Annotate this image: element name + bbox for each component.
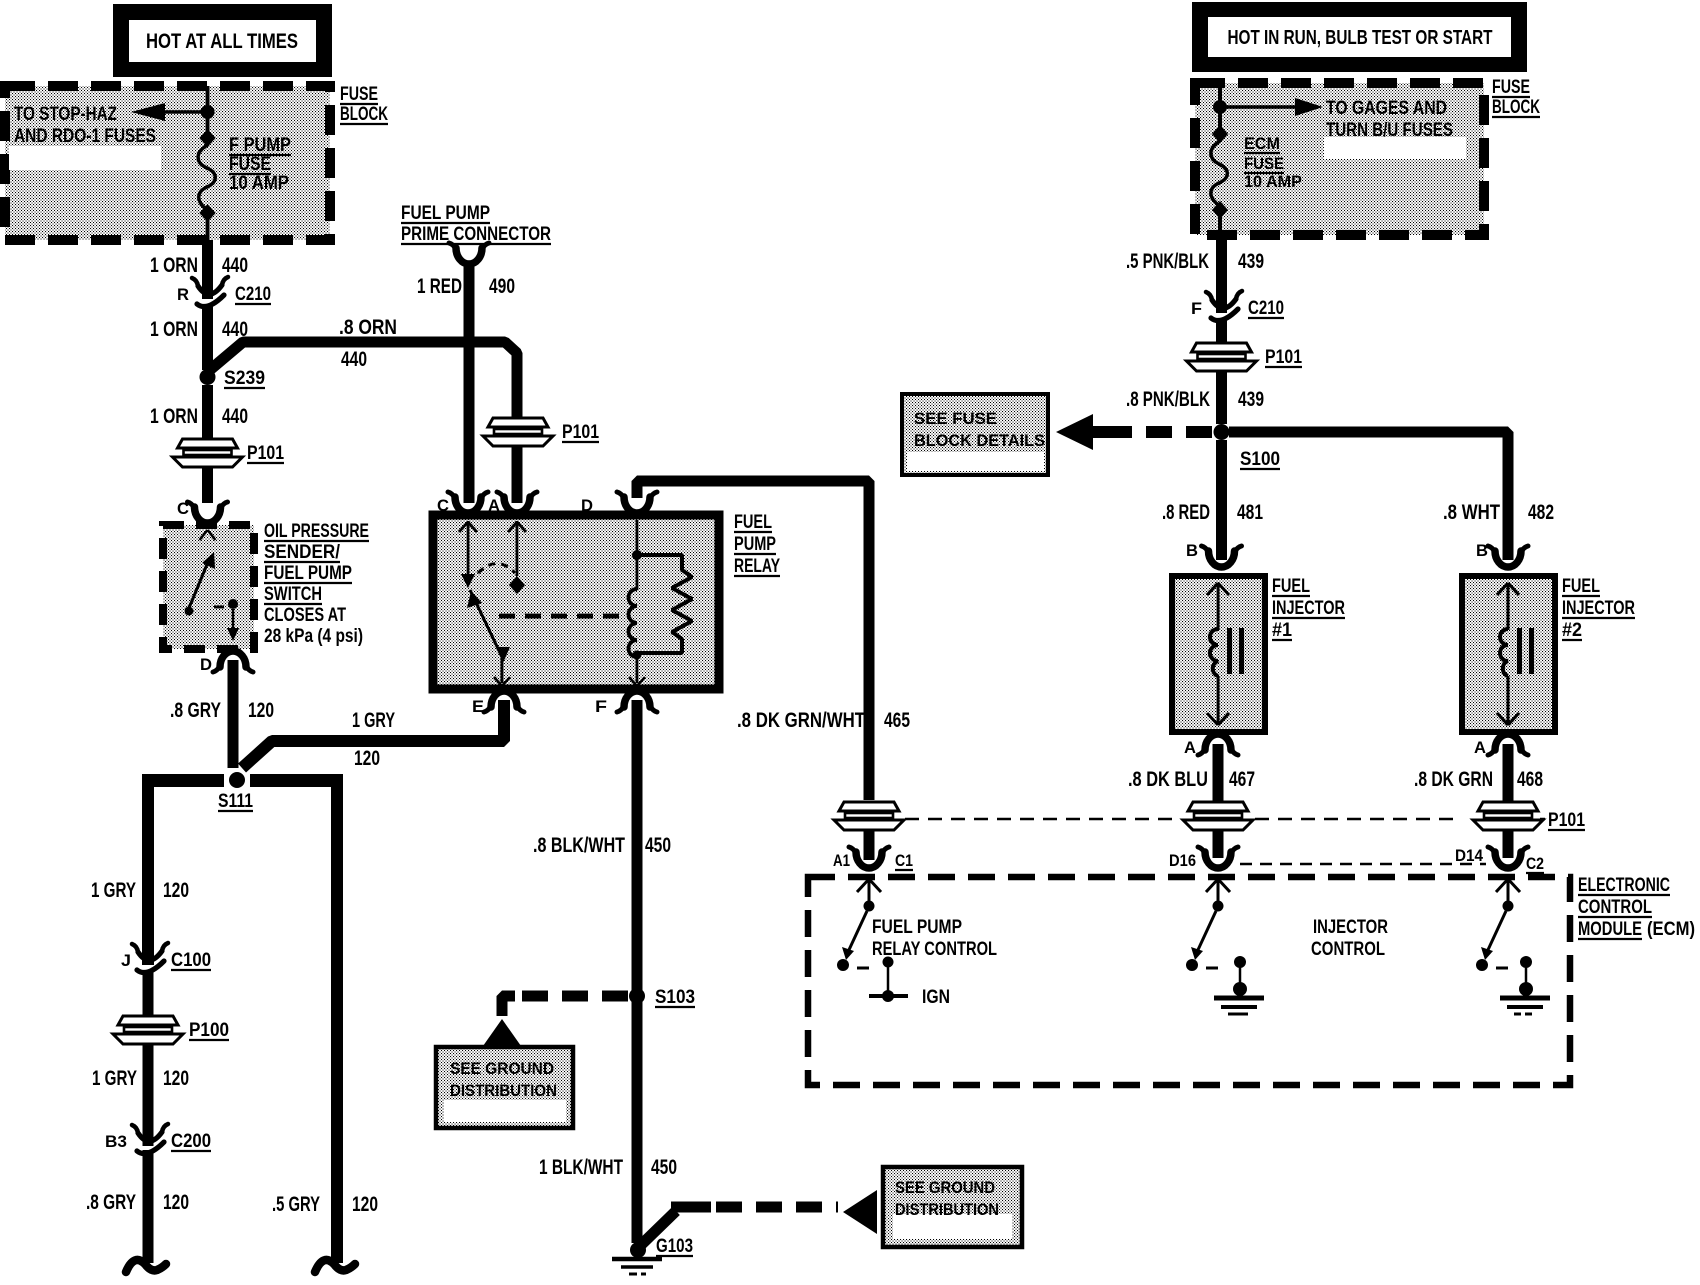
wire: relay pin D elbow to ECM (.8 DK GRN/WHT 465) [637,481,910,800]
label: FUSE BLOCK (left) [340,84,388,125]
svg-text:SEE FUSE: SEE FUSE [914,409,997,428]
wire: left leg of S111 down (1 GRY 120) [91,774,189,965]
connector C210 pin F (right) [1191,291,1284,321]
svg-text:C1: C1 [895,851,913,870]
svg-text:.8 BLK/WHT: .8 BLK/WHT [533,834,625,857]
svg-text:.8 DK GRN/WHT: .8 DK GRN/WHT [737,709,865,732]
pin D of oil pressure switch [200,651,253,674]
relay pins C and A forks [437,492,537,515]
svg-text:F: F [1191,299,1202,318]
pin C of oil pressure switch [177,499,228,523]
svg-text:FUEL PUMP: FUEL PUMP [872,917,962,938]
wire: 1 ORN 440 (C210 to S239) [150,304,248,370]
label: ELECTRONIC CONTROL MODULE (ECM) [1578,875,1695,940]
svg-text:ELECTRONIC: ELECTRONIC [1578,875,1670,896]
svg-text:FUSE: FUSE [340,84,378,105]
svg-text:440: 440 [222,254,248,277]
svg-text:C2: C2 [1526,854,1544,873]
node: left fuse block tap [201,105,215,119]
svg-text:CLOSES AT: CLOSES AT [264,605,346,626]
wire: arrow to GAGES and TURN B/U fuses [1224,98,1453,141]
svg-text:FUEL: FUEL [734,512,772,533]
svg-text:450: 450 [651,1156,677,1179]
pass-through connector P101 (left, on ORN wire) [173,439,285,503]
svg-text:TO GAGES AND: TO GAGES AND [1326,98,1447,119]
svg-text:D14: D14 [1455,846,1483,865]
svg-text:S239: S239 [224,368,265,389]
ECM pin A1/C1 fork [833,831,913,870]
pass-through connector P101 (middle, on ORN wire) [483,415,599,503]
ECM pin D16 fork [1169,847,1238,870]
relay pin D fork [581,492,657,515]
svg-text:C200: C200 [171,1131,211,1152]
svg-text:SEE GROUND: SEE GROUND [450,1059,554,1078]
svg-text:.8 DK GRN: .8 DK GRN [1414,768,1493,791]
splice S239 [200,368,266,389]
svg-text:1 RED: 1 RED [417,275,462,298]
svg-text:PRIME CONNECTOR: PRIME CONNECTOR [401,224,551,245]
fuel pump relay box [433,515,719,689]
reference box: SEE GROUND DISTRIBUTION (bottom right) [883,1167,1022,1247]
svg-text:FUSE: FUSE [229,154,271,175]
connector C100 pin J [121,943,211,973]
relay internals: coil and resistor from pin D to pin F [629,520,693,686]
svg-text:INJECTOR: INJECTOR [1313,917,1388,938]
svg-text:OIL PRESSURE: OIL PRESSURE [264,521,369,542]
dashed wire: S103 to ground distribution reference [483,996,628,1046]
svg-text:.8 GRY: .8 GRY [170,699,221,722]
oil pressure sender / fuel pump switch - dashed box [163,525,254,649]
wire: .8 WHT 482 branch (S100 to injector 2) [1229,432,1554,560]
pass-through connector P101 (on 467 wire) [1183,802,1253,830]
fuel injector #1 [1172,541,1345,757]
svg-text:440: 440 [341,348,367,371]
connector C200 pin B3 [105,1124,211,1154]
svg-text:G103: G103 [656,1236,693,1257]
wire: right leg of S111 down (.5 GRY 120) with frayed end [272,774,378,1272]
svg-text:1 GRY: 1 GRY [91,879,136,902]
svg-text:450: 450 [645,834,671,857]
reference box: SEE GROUND DISTRIBUTION (middle) [436,1047,573,1128]
svg-text:1 ORN: 1 ORN [150,254,198,277]
svg-text:482: 482 [1528,501,1554,524]
svg-text:1 GRY: 1 GRY [352,709,395,732]
svg-text:C100: C100 [171,950,211,971]
svg-text:IGN: IGN [922,987,950,1008]
pass-through connector P100 [92,1014,229,1146]
fuse ECM 10 AMP (right) [1211,125,1302,235]
svg-text:120: 120 [248,699,274,722]
svg-text:FUEL: FUEL [1272,576,1310,597]
wire: arrow to STOP-HAZ and RDO-1 fuses [14,103,204,147]
svg-text:FUSE: FUSE [1244,154,1284,173]
svg-text:120: 120 [163,1067,189,1090]
svg-text:P101: P101 [247,443,284,464]
connector C210 pin R (left) [177,277,271,307]
svg-text:465: 465 [884,709,910,732]
svg-text:INJECTOR: INJECTOR [1562,598,1635,619]
svg-text:440: 440 [222,405,248,428]
svg-text:CONTROL: CONTROL [1311,939,1385,960]
svg-text:.8 DK BLU: .8 DK BLU [1128,768,1208,791]
svg-text:S103: S103 [655,987,695,1008]
svg-text:490: 490 [489,275,515,298]
svg-text:C210: C210 [1248,298,1284,319]
svg-text:.8 RED: .8 RED [1162,501,1210,524]
ECM driver: injector control D16 with ground [1186,879,1264,1014]
svg-text:FUEL PUMP: FUEL PUMP [401,203,490,224]
ECM driver: fuel pump relay control with IGN contact [837,879,997,1008]
svg-text:MODULE: MODULE [1578,919,1642,940]
relay internals: switch from pin C to pin E [459,521,526,686]
svg-text:CONTROL: CONTROL [1578,897,1652,918]
splice S103 [629,987,695,1008]
wire: 1 ORN 440 (fuse block to C210) [150,240,248,299]
wire: .8 RED 481 (S100 to injector 1) [1162,440,1263,560]
svg-text:120: 120 [163,879,189,902]
svg-text:10 AMP: 10 AMP [1244,172,1302,191]
svg-text:RELAY: RELAY [734,556,780,577]
power label: HOT AT ALL TIMES [113,4,332,77]
svg-text:1 GRY: 1 GRY [92,1067,137,1090]
svg-text:439: 439 [1238,388,1264,411]
svg-text:A: A [1184,738,1196,757]
svg-text:B3: B3 [105,1132,127,1151]
svg-text:(ECM): (ECM) [1647,919,1695,940]
svg-text:#1: #1 [1272,620,1292,641]
splice S111 bus bar [142,772,343,812]
wire: .8 DK BLU 467 (injector 1 to ECM D16) [1128,744,1255,858]
labels: OIL PRESSURE SENDER/FUEL PUMP SWITCH CLOSES AT 28 kPa (4 psi) [264,521,369,647]
svg-text:1 BLK/WHT: 1 BLK/WHT [539,1156,623,1179]
svg-text:HOT IN RUN, BULB TEST OR START: HOT IN RUN, BULB TEST OR START [1228,27,1493,49]
dashed wire: G103 to ground distribution reference [641,1190,877,1245]
svg-text:AND RDO-1 FUSES: AND RDO-1 FUSES [14,126,156,147]
svg-text:SENDER/: SENDER/ [264,542,341,563]
wire: .8 BLK/WHT 450 (relay pin F to S103) [533,700,671,992]
svg-text:INJECTOR: INJECTOR [1272,598,1345,619]
wire: 1 ORN 440 (S239 to P101) [150,385,248,440]
svg-text:PUMP: PUMP [734,534,776,555]
svg-text:P101: P101 [562,422,599,443]
svg-text:F PUMP: F PUMP [229,135,291,156]
wire: .5 PNK/BLK 439 (fuse block to C210) [1126,235,1264,313]
svg-text:.8 GRY: .8 GRY [86,1191,136,1214]
svg-text:.8 PNK/BLK: .8 PNK/BLK [1126,388,1210,411]
electronic control module (ECM) dashed box [808,877,1570,1085]
svg-text:481: 481 [1237,501,1263,524]
svg-text:D: D [200,655,212,674]
svg-text:.8 WHT: .8 WHT [1443,501,1500,524]
node: right fuse block tap [1213,100,1227,114]
svg-text:1 ORN: 1 ORN [150,318,198,341]
reference box: SEE FUSE BLOCK DETAILS [902,394,1048,475]
svg-text:BLOCK: BLOCK [1492,97,1540,118]
svg-text:.5 PNK/BLK: .5 PNK/BLK [1126,250,1209,273]
svg-text:P100: P100 [189,1020,229,1041]
svg-text:P101: P101 [1265,347,1302,368]
svg-text:FUSE: FUSE [1492,77,1530,98]
power label: HOT IN RUN, BULB TEST OR START [1192,2,1527,72]
wire: .8 GRY 120 (oil switch to S111) [170,660,274,768]
svg-text:J: J [121,951,131,970]
fuel pump prime connector [401,203,551,264]
svg-text:S100: S100 [1240,449,1280,470]
svg-text:E: E [472,697,484,716]
wire: 1 RED 490 (prime connector to relay pin C) [417,262,515,503]
pass-through connector P101 (on 465 wire) [834,802,904,830]
svg-text:467: 467 [1229,768,1255,791]
svg-text:FUEL: FUEL [1562,576,1600,597]
label: FUSE BLOCK (right) [1492,77,1540,118]
fuse block (left) - dashed box with stipple [5,86,330,240]
ground G103 [612,1236,693,1274]
wire: .8 GRY 120 below C200 with frayed end [86,1150,189,1272]
svg-text:A1: A1 [833,851,850,870]
svg-text:1 ORN: 1 ORN [150,405,198,428]
wire: .8 ORN 440 branch to P101/relay pin A [208,316,518,421]
svg-text:ECM: ECM [1244,134,1280,153]
svg-text:#2: #2 [1562,620,1582,641]
svg-text:HOT AT ALL TIMES: HOT AT ALL TIMES [146,30,298,53]
svg-text:.8 ORN: .8 ORN [339,316,397,339]
fuel injector #2 [1462,541,1635,757]
svg-text:120: 120 [352,1193,378,1216]
svg-text:10 AMP: 10 AMP [229,173,289,194]
svg-text:120: 120 [163,1191,189,1214]
wire: ignition feed inside right fuse block [1218,83,1222,141]
svg-text:C: C [177,499,189,518]
svg-text:.5 GRY: .5 GRY [272,1193,320,1216]
svg-text:SWITCH: SWITCH [264,584,322,605]
svg-text:B: B [1476,541,1488,560]
svg-text:DISTRIBUTION: DISTRIBUTION [450,1081,557,1100]
wire: battery feed inside left fuse block [206,86,210,141]
svg-text:B: B [1186,541,1198,560]
ECM driver: injector control D14 with ground [1476,879,1550,1014]
label: FUEL PUMP RELAY [734,512,780,577]
svg-text:D16: D16 [1169,851,1196,870]
svg-text:468: 468 [1517,768,1543,791]
pass-through connector P101 (right, on PNK/BLK wire) [1126,318,1302,424]
relay pins E and F forks [472,691,657,716]
fuse block (right) - dashed box with stipple [1195,83,1484,235]
svg-text:RELAY CONTROL: RELAY CONTROL [872,939,997,960]
pass-through connector P101 (on 468 wire) with label [1473,802,1585,831]
svg-text:DISTRIBUTION: DISTRIBUTION [895,1200,999,1219]
wire: .8 DK GRN 468 (injector 2 to ECM D14) [1414,744,1543,858]
svg-text:439: 439 [1238,250,1264,273]
svg-text:SEE GROUND: SEE GROUND [895,1178,995,1197]
svg-text:BLOCK: BLOCK [340,104,388,125]
svg-text:FUEL PUMP: FUEL PUMP [264,563,352,584]
splice S100 [1214,424,1281,470]
svg-text:28 kPa (4 psi): 28 kPa (4 psi) [264,626,363,647]
svg-text:A: A [1474,738,1486,757]
label: INJECTOR CONTROL [1311,917,1388,960]
ECM pin D14/C2 fork [1455,846,1544,873]
dashed connector line P101 through injector harness [905,818,1545,821]
wire: C100 to P100 [143,970,154,1014]
svg-text:TO STOP-HAZ: TO STOP-HAZ [14,104,117,125]
wire: 1 BLK/WHT 450 (S103 to G103) [539,1000,677,1243]
fuse F-PUMP 10 AMP (left) [198,129,291,240]
svg-text:F: F [595,697,607,716]
dashed line between ECM pins D16 and D14 [1240,863,1486,866]
svg-text:R: R [177,285,189,304]
relay internals: dashed actuation line [499,614,622,619]
svg-text:S111: S111 [218,791,253,812]
wire: 1 GRY 120 (relay pin E to S111) [242,700,504,770]
svg-text:P101: P101 [1548,810,1585,831]
oil switch internals: sender arm and contact [185,530,240,641]
dashed wire: S100 to fuse block details reference [1056,414,1212,450]
svg-text:C210: C210 [235,284,271,305]
svg-text:TURN B/U FUSES: TURN B/U FUSES [1326,120,1453,141]
svg-text:120: 120 [354,747,380,770]
svg-text:BLOCK DETAILS: BLOCK DETAILS [914,431,1045,450]
